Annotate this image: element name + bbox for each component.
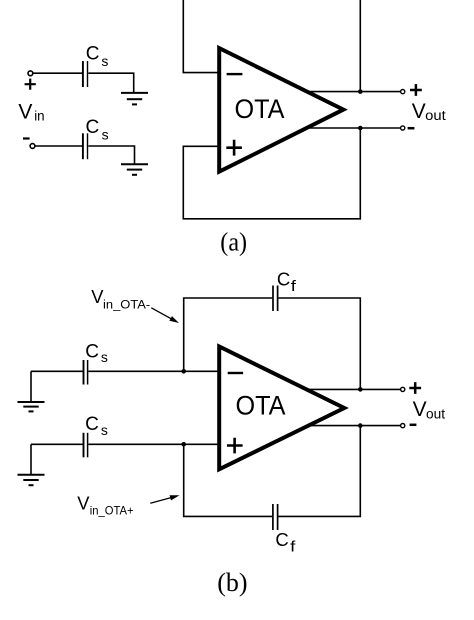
svg-text:C: C	[85, 414, 99, 435]
svg-text:(b): (b)	[217, 568, 247, 597]
svg-text:in_OTA+: in_OTA+	[90, 504, 134, 518]
svg-text:s: s	[101, 422, 108, 438]
svg-text:s: s	[101, 53, 108, 69]
svg-text:OTA: OTA	[235, 94, 285, 124]
svg-text:V: V	[77, 492, 90, 513]
svg-text:V: V	[18, 101, 32, 124]
svg-text:s: s	[101, 349, 108, 365]
svg-text:in_OTA-: in_OTA-	[103, 297, 150, 311]
svg-text:C: C	[275, 529, 288, 550]
svg-text:C: C	[86, 43, 100, 64]
svg-text:out: out	[425, 108, 446, 123]
svg-text:V: V	[413, 398, 427, 421]
svg-text:(a): (a)	[220, 227, 247, 256]
svg-text:in: in	[34, 108, 44, 123]
svg-text:C: C	[86, 117, 100, 138]
svg-text:OTA: OTA	[236, 391, 286, 421]
svg-text:out: out	[426, 406, 445, 421]
svg-text:C: C	[85, 341, 99, 362]
svg-text:C: C	[277, 268, 290, 289]
svg-text:V: V	[412, 100, 426, 123]
svg-text:s: s	[102, 126, 109, 142]
